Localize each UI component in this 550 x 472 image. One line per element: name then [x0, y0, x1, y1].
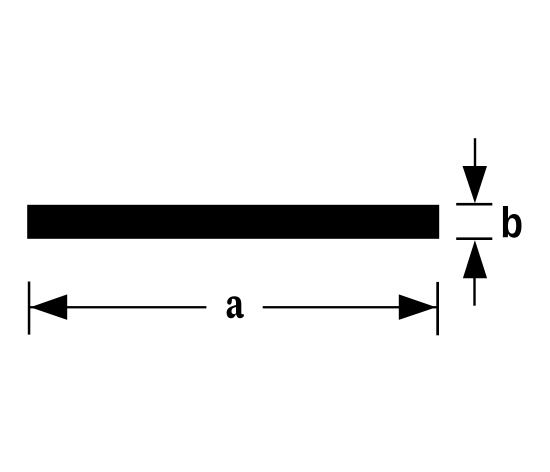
arrowhead down (dimension b) [463, 166, 488, 203]
dimension line a, right segment [263, 306, 437, 308]
arrowhead right (dimension a) [399, 294, 436, 320]
flat bar profile (solid section) [27, 205, 439, 239]
leader line above (dimension b) [474, 138, 476, 167]
tick line bottom (dimension b) [456, 237, 492, 240]
extension line left (dimension a) [28, 282, 31, 335]
arrowhead left (dimension a) [30, 294, 67, 320]
dimension line a, left segment [29, 306, 206, 308]
label b [503, 206, 522, 238]
extension line right (dimension a) [436, 282, 439, 335]
tick line top (dimension b) [456, 203, 492, 206]
arrowhead up (dimension b) [463, 240, 487, 278]
leader line below (dimension b) [473, 278, 475, 306]
label a [227, 296, 244, 318]
